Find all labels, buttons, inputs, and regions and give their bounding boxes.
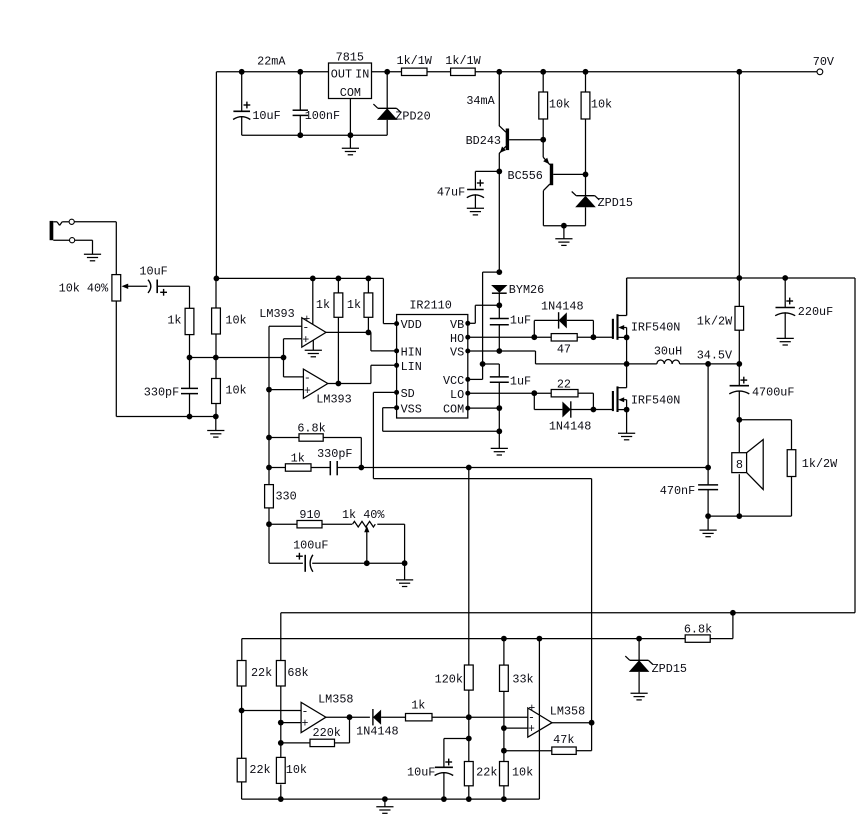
svg-text:1k: 1k <box>347 298 361 312</box>
svg-text:10k: 10k <box>225 314 246 328</box>
svg-text:47k: 47k <box>553 733 574 747</box>
svg-text:330: 330 <box>275 489 296 503</box>
svg-text:IR2110: IR2110 <box>409 299 451 313</box>
svg-text:IRF540N: IRF540N <box>631 394 681 408</box>
svg-text:10k: 10k <box>286 763 307 777</box>
svg-text:330pF: 330pF <box>317 447 352 461</box>
svg-text:BYM26: BYM26 <box>509 283 544 297</box>
svg-text:1k/1W: 1k/1W <box>396 54 432 68</box>
svg-text:COM: COM <box>443 403 464 417</box>
svg-text:HIN: HIN <box>401 346 422 360</box>
svg-text:1k/2W: 1k/2W <box>697 315 733 329</box>
svg-text:LM393: LM393 <box>259 307 294 321</box>
svg-text:ZPD20: ZPD20 <box>395 109 430 123</box>
svg-text:-: - <box>302 322 309 335</box>
svg-text:22: 22 <box>557 378 571 392</box>
svg-text:6.8k: 6.8k <box>684 623 712 637</box>
svg-text:ZPD15: ZPD15 <box>652 662 687 676</box>
svg-text:LM358: LM358 <box>318 693 353 707</box>
svg-text:IN: IN <box>355 68 369 82</box>
svg-text:10k: 10k <box>591 98 612 112</box>
svg-text:1k 40%: 1k 40% <box>342 508 385 522</box>
svg-text:1k: 1k <box>316 298 330 312</box>
svg-text:6.8k: 6.8k <box>297 422 325 436</box>
svg-text:1uF: 1uF <box>510 314 531 328</box>
svg-text:BC556: BC556 <box>507 169 542 183</box>
svg-text:LM358: LM358 <box>550 705 585 719</box>
svg-text:30uH: 30uH <box>654 344 682 358</box>
svg-text:220uF: 220uF <box>798 305 833 319</box>
svg-text:VSS: VSS <box>401 402 422 416</box>
svg-text:22k: 22k <box>249 763 270 777</box>
svg-text:7815: 7815 <box>336 51 364 65</box>
svg-text:10k 40%: 10k 40% <box>59 282 109 296</box>
svg-text:-: - <box>304 372 311 385</box>
svg-text:LIN: LIN <box>401 360 422 374</box>
svg-text:70V: 70V <box>813 55 835 69</box>
svg-text:100uF: 100uF <box>293 539 328 553</box>
svg-text:1N4148: 1N4148 <box>356 724 398 738</box>
svg-text:33k: 33k <box>512 672 533 686</box>
svg-text:LM393: LM393 <box>316 392 351 406</box>
svg-text:22k: 22k <box>251 666 272 680</box>
svg-text:10uF: 10uF <box>139 265 167 279</box>
svg-text:LO: LO <box>450 388 464 402</box>
svg-text:22k: 22k <box>476 765 497 779</box>
svg-text:VB: VB <box>450 318 464 332</box>
svg-text:100nF: 100nF <box>305 109 340 123</box>
svg-text:SD: SD <box>401 387 415 401</box>
svg-text:+: + <box>301 718 308 731</box>
svg-text:1N4148: 1N4148 <box>541 300 583 314</box>
svg-text:1k: 1k <box>411 699 425 713</box>
svg-text:HO: HO <box>450 332 464 346</box>
svg-text:10uF: 10uF <box>407 765 435 779</box>
svg-text:IRF540N: IRF540N <box>631 321 681 335</box>
svg-text:4700uF: 4700uF <box>752 385 794 399</box>
svg-text:VS: VS <box>450 346 464 360</box>
svg-text:BD243: BD243 <box>466 134 501 148</box>
svg-text:220k: 220k <box>313 726 341 740</box>
svg-text:10k: 10k <box>512 765 533 779</box>
svg-text:120k: 120k <box>435 672 463 686</box>
svg-text:34.5V: 34.5V <box>697 349 733 363</box>
svg-text:+: + <box>528 723 535 736</box>
svg-text:VCC: VCC <box>443 374 464 388</box>
svg-text:47uF: 47uF <box>437 186 465 200</box>
svg-text:68k: 68k <box>287 666 308 680</box>
svg-text:OUT: OUT <box>331 68 352 82</box>
svg-text:ZPD15: ZPD15 <box>598 196 633 210</box>
svg-text:910: 910 <box>299 508 320 522</box>
svg-text:8: 8 <box>736 458 743 472</box>
svg-text:47: 47 <box>557 343 571 357</box>
svg-text:1k: 1k <box>167 314 181 328</box>
svg-text:22mA: 22mA <box>257 54 286 68</box>
svg-text:-: - <box>301 706 308 719</box>
svg-text:470nF: 470nF <box>660 484 695 498</box>
svg-text:+: + <box>302 334 309 347</box>
svg-text:1uF: 1uF <box>510 375 531 389</box>
svg-text:34mA: 34mA <box>466 94 495 108</box>
svg-text:10uF: 10uF <box>252 109 280 123</box>
svg-text:1k/1W: 1k/1W <box>445 54 481 68</box>
svg-text:1k: 1k <box>291 452 305 466</box>
svg-text:COM: COM <box>340 86 361 100</box>
svg-text:1N4148: 1N4148 <box>549 420 591 434</box>
svg-text:330pF: 330pF <box>144 385 179 399</box>
svg-text:VDD: VDD <box>401 318 422 332</box>
svg-text:10k: 10k <box>549 98 570 112</box>
svg-text:+: + <box>304 385 311 398</box>
svg-text:1k/2W: 1k/2W <box>802 457 838 471</box>
svg-text:10k: 10k <box>225 383 246 397</box>
